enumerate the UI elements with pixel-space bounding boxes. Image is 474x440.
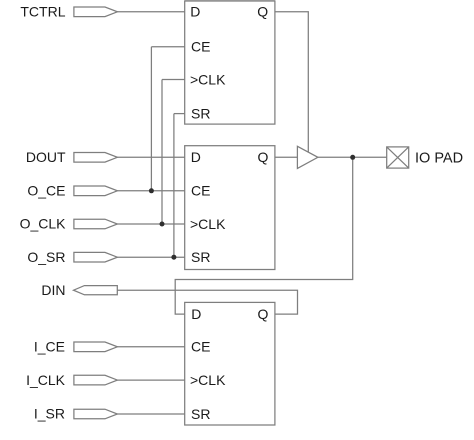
wire U1 top edge emphasis [185,0,275,2]
IO pad symbol [387,147,409,168]
flip-flop U2 (output FF) [185,146,275,270]
wire U3 Q to DIN [117,290,297,314]
pin DIN output connector [74,286,118,295]
svg-text:Q: Q [258,149,269,165]
wire O_CLK to U2 CLK [117,223,184,225]
svg-text:CE: CE [191,339,210,355]
wire U2 Q to buffer input [275,156,298,158]
junction node pad/feedback [350,155,355,160]
pin O_SR input connector [74,252,118,262]
pin TCTRL input connector [74,7,118,17]
svg-text:D: D [191,306,201,322]
wire buffer output to IO pad [318,156,387,158]
svg-text:>CLK: >CLK [190,216,226,232]
pin I_CE input connector [74,342,118,352]
pin I_SR input connector [74,409,118,419]
svg-text:I_CE: I_CE [34,339,65,355]
wire U1 Q to buffer enable [275,12,308,153]
flip-flop U3 (input FF) [185,302,275,425]
svg-text:O_CE: O_CE [27,183,65,199]
wire U1 SR stub [174,113,185,115]
wire I_CE to U3 CE [117,346,184,348]
svg-text:SR: SR [191,249,210,265]
svg-text:D: D [190,4,200,20]
pin DOUT input connector [74,153,118,163]
svg-text:I_CLK: I_CLK [26,372,66,388]
svg-text:D: D [191,149,201,165]
wire pad feedback to U3 D [175,157,353,314]
wire U1 CLK stub [162,79,185,81]
svg-text:IO PAD: IO PAD [415,150,463,166]
wire I_SR to U3 SR [117,413,184,415]
svg-text:DOUT: DOUT [26,149,66,165]
pin O_CE input connector [74,186,118,196]
svg-text:Q: Q [257,4,268,20]
svg-text:DIN: DIN [41,282,65,298]
svg-text:O_SR: O_SR [27,249,65,265]
svg-text:CE: CE [191,183,210,199]
junction node O_SR/SR bus [171,255,176,260]
svg-text:TCTRL: TCTRL [20,3,65,19]
wire I_CLK to U3 CLK [117,379,184,381]
junction node O_CE/CE bus [149,188,154,193]
flip-flop U1 (tri-state control FF) [185,1,275,124]
wire TCTRL to U1 D [117,11,184,13]
svg-text:SR: SR [191,406,210,422]
wire DOUT to U2 D [117,156,184,158]
wire CE bus vertical [150,47,152,191]
pin I_CLK input connector [74,375,118,385]
svg-text:SR: SR [191,105,210,121]
svg-text:>CLK: >CLK [190,372,226,388]
wire O_CE to U2 CE [117,190,184,192]
pin O_CLK input connector [74,219,118,229]
svg-text:>CLK: >CLK [190,71,226,87]
wire U1 CE stub [151,46,184,48]
junction node O_CLK/CLK bus [160,222,165,227]
wire O_SR to U2 SR [117,256,184,258]
svg-text:Q: Q [258,306,269,322]
svg-text:CE: CE [191,39,210,55]
svg-text:O_CLK: O_CLK [20,216,67,232]
wire CLK bus vertical [161,80,163,225]
op-amp U4 (tri-state output buffer) [297,146,318,168]
wire SR bus vertical [173,114,175,258]
svg-text:I_SR: I_SR [34,406,65,422]
